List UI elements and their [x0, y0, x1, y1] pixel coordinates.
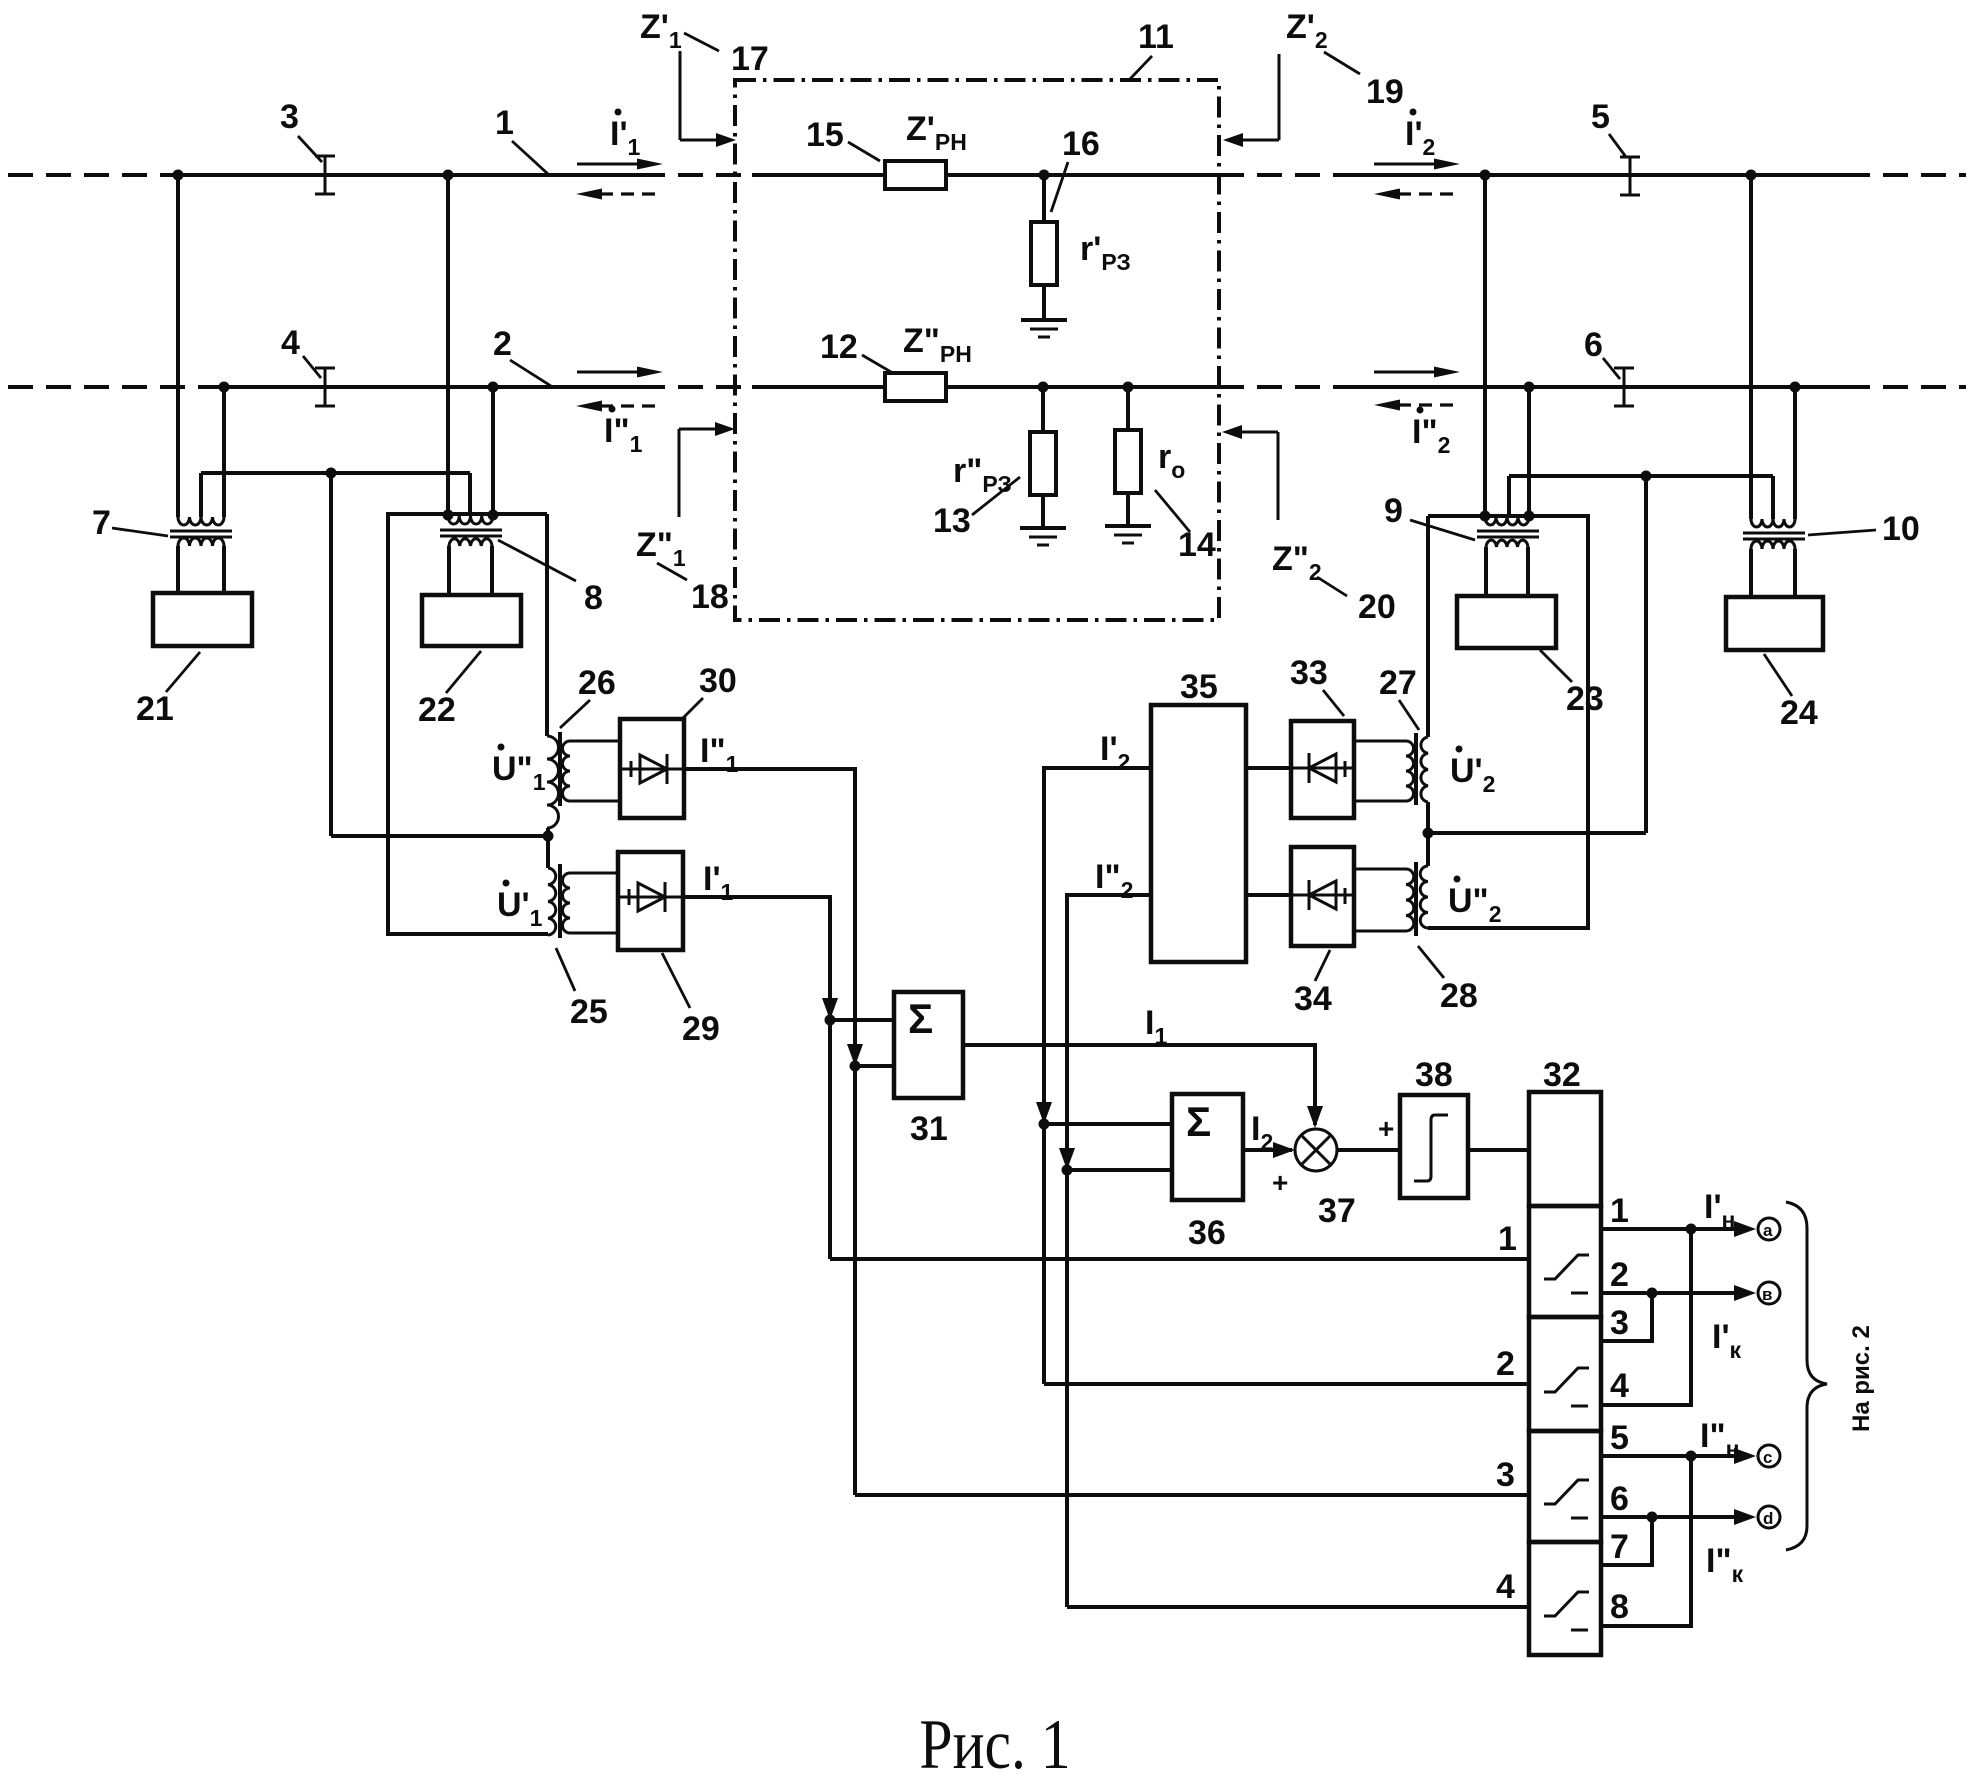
- wire bus line 2 left solid: [212, 385, 640, 389]
- node junction line1 x448: [443, 170, 454, 181]
- transformer 9 secondary coil: [1486, 540, 1528, 547]
- svg-text:13: 13: [933, 502, 971, 540]
- load box 23: [1457, 596, 1556, 648]
- svg-text:27: 27: [1379, 664, 1417, 702]
- arrow I2 into 37: [1273, 1142, 1295, 1158]
- wire channel line 3 to block 32: [855, 1493, 1529, 1497]
- transformer 7 core: [170, 531, 232, 537]
- diode inside rectifier 34: [1291, 880, 1354, 910]
- multiplier 37: [1295, 1129, 1337, 1171]
- rectifier box 33: [1291, 721, 1354, 818]
- node junction transformer 9 left terminal: [1480, 511, 1491, 522]
- svg-text:21: 21: [136, 690, 174, 728]
- svg-text:1: 1: [1610, 1192, 1629, 1230]
- label 8: [498, 540, 603, 617]
- node junction transformer 8 right terminal: [488, 510, 499, 521]
- label I"1 output: [700, 732, 739, 777]
- label 10: [1808, 510, 1920, 548]
- wire output 6 to terminal d: [1652, 1515, 1745, 1519]
- label 33: [1290, 654, 1344, 716]
- transformer 10 primary coil: [1751, 519, 1795, 527]
- svg-text:7: 7: [92, 504, 111, 542]
- wire bus line 1 left dashed: [8, 173, 176, 177]
- resistor 14 ro: [1115, 430, 1141, 493]
- summator block 31: [894, 992, 963, 1098]
- dash-dot boundary box 11: [735, 80, 1219, 620]
- wire junction x1646 down to U2 common: [1428, 476, 1646, 833]
- label 5: [1591, 98, 1626, 157]
- label 27: [1379, 664, 1419, 730]
- node junction line2 x224: [219, 382, 230, 393]
- ground under ro: [1105, 526, 1151, 543]
- node junction transformer 9 right terminal: [1524, 511, 1535, 522]
- voltage unit box U1 outline: [388, 514, 548, 934]
- label I'2 current: [1405, 109, 1435, 161]
- arrow to terminal d: [1734, 1509, 1756, 1525]
- wire tee drop to ro: [1126, 387, 1130, 430]
- label I'2 output: [1100, 730, 1130, 775]
- node junction line1 x1485: [1480, 170, 1491, 181]
- wire line2 drop to transformer 10: [1793, 387, 1797, 519]
- summator block 36: [1172, 1094, 1243, 1200]
- wire output stub 3 joins 2: [1601, 1293, 1652, 1341]
- wire I"2 output of 35: [1067, 895, 1151, 1607]
- wire 35 to rectifier 34: [1246, 893, 1291, 897]
- label I"2 output: [1095, 858, 1133, 903]
- svg-text:33: 33: [1290, 654, 1328, 692]
- wire line1 drop to transformer 8: [446, 175, 450, 516]
- svg-text:3: 3: [1610, 1304, 1629, 1342]
- wire output stub 2: [1601, 1291, 1652, 1295]
- node junction line1 x178: [173, 170, 184, 181]
- node junction I"1 branch to 31: [850, 1061, 861, 1072]
- label 13: [933, 477, 1020, 540]
- wire output stub 7 joins 6: [1601, 1517, 1652, 1565]
- label 3: [280, 98, 322, 162]
- wire bus line 1 dashed right of box: [1219, 173, 1348, 177]
- wire bus line 2 inside box left: [752, 385, 885, 389]
- label Z'PH value: [906, 110, 967, 155]
- label U"2: [1448, 876, 1501, 928]
- label U"1: [492, 744, 546, 796]
- wire bus line 1 inside box left: [752, 173, 885, 177]
- label Z'2 with pointer: [1223, 8, 1360, 147]
- wire bus line 2 left dashed: [8, 385, 212, 389]
- svg-text:35: 35: [1180, 668, 1218, 706]
- node junction line2 x1795: [1790, 382, 1801, 393]
- svg-text:12: 12: [820, 328, 858, 366]
- wire bus line 2 dashed into box: [640, 385, 752, 389]
- label 12: [820, 328, 891, 372]
- secondary loop of winding 27 to rectifier 33: [1354, 741, 1414, 801]
- label 16: [1051, 125, 1100, 212]
- arrow into summator 36 input 1: [1036, 1102, 1052, 1124]
- threshold cell B of 32: [1529, 1317, 1601, 1431]
- svg-text:4: 4: [281, 324, 300, 362]
- wire line2 drop to transformer 9: [1527, 387, 1531, 517]
- wire output 2 to terminal b: [1652, 1291, 1745, 1295]
- label 25: [556, 948, 608, 1031]
- label 6: [1584, 326, 1620, 379]
- svg-text:29: 29: [682, 1010, 720, 1048]
- wire transformer 8 secondary legs: [449, 546, 492, 595]
- node junction line2 x493: [488, 382, 499, 393]
- threshold cell A of 32: [1529, 1206, 1601, 1317]
- svg-text:20: 20: [1358, 588, 1396, 626]
- caption Ris 1: [919, 1706, 1070, 1780]
- transformer 10 secondary coil: [1751, 541, 1795, 549]
- wire transformer 7 secondary legs: [178, 546, 224, 593]
- core bar of winding 27: [1414, 733, 1418, 805]
- wire 31 input 1: [830, 1018, 894, 1022]
- svg-text:На рис. 2: На рис. 2: [1848, 1325, 1875, 1432]
- rectifier box 30: [620, 719, 684, 818]
- svg-text:3: 3: [1496, 1456, 1515, 1494]
- node junction line2 x1529: [1524, 382, 1535, 393]
- label Z"1 with pointer: [636, 422, 735, 580]
- label 26: [560, 664, 616, 728]
- wire transformer 10 secondary legs: [1751, 549, 1795, 597]
- insulator 5: [1620, 157, 1640, 195]
- svg-text:38: 38: [1415, 1056, 1453, 1094]
- svg-text:15: 15: [806, 116, 844, 154]
- wire I'1 output of rectifier 29: [683, 897, 830, 1259]
- core bar of winding 28: [1414, 862, 1418, 936]
- wire ro to ground: [1126, 493, 1130, 526]
- arrow current direction right on line 2 left: [577, 367, 663, 378]
- wire channel line 4 to block 32: [1067, 1605, 1529, 1609]
- svg-text:32: 32: [1543, 1056, 1581, 1094]
- wire line1 drop to transformer 10: [1749, 175, 1753, 519]
- wire line2 drop to transformer 7: [222, 387, 226, 517]
- transformer 9 core: [1477, 531, 1539, 537]
- label I'n output: [1704, 1188, 1735, 1233]
- diode inside rectifier 33: [1291, 753, 1354, 783]
- svg-text:2: 2: [1496, 1345, 1515, 1383]
- wire channel line 2 to block 32: [1044, 1382, 1529, 1386]
- svg-text:+: +: [1378, 1113, 1394, 1144]
- wire 36 input 1: [1044, 1122, 1172, 1126]
- wire line1 drop to transformer 9: [1483, 175, 1487, 517]
- label 30: [681, 662, 737, 720]
- svg-text:2: 2: [493, 325, 512, 363]
- label 9: [1384, 492, 1475, 540]
- svg-text:31: 31: [910, 1110, 948, 1148]
- svg-text:25: 25: [570, 993, 608, 1031]
- svg-text:6: 6: [1584, 326, 1603, 364]
- transformer 8 secondary coil: [449, 539, 492, 546]
- arrow current direction left dashed on line 2 right: [1374, 400, 1460, 411]
- rectifier box 34: [1291, 847, 1354, 946]
- label 11: [1130, 18, 1174, 79]
- current block 35: [1151, 705, 1246, 962]
- rectifier box 29: [618, 852, 683, 950]
- insulator 6: [1614, 368, 1634, 406]
- label I'1 current: [610, 109, 641, 161]
- winding U'2 on box edge: [1421, 737, 1428, 802]
- label 21: [136, 652, 200, 728]
- secondary loop of winding 25 to rectifier 29: [563, 873, 618, 933]
- label 24: [1764, 654, 1818, 732]
- arrow to terminal c: [1734, 1448, 1756, 1464]
- svg-text:+: +: [1272, 1167, 1288, 1198]
- brace to fig 2: [1786, 1202, 1827, 1550]
- wire 31 input 2: [855, 1064, 894, 1068]
- label I"2 current: [1412, 407, 1450, 459]
- arrow current direction left dashed on line 1 left: [576, 189, 662, 200]
- arrow I1 into multiplier 37: [1307, 1106, 1323, 1128]
- wire output stub 8 joins 5: [1601, 1456, 1691, 1626]
- diode inside rectifier 30: [620, 754, 684, 784]
- svg-text:в: в: [1762, 1285, 1772, 1304]
- label I'1 output: [703, 860, 734, 905]
- arrow into summator 31 input 2: [847, 1044, 863, 1066]
- transformer 8 primary coil: [448, 516, 493, 524]
- threshold cell C of 32: [1529, 1431, 1601, 1542]
- terminal circle a: [1758, 1218, 1780, 1240]
- ground under r'P3: [1021, 320, 1067, 337]
- transformer 7 primary coil: [178, 517, 224, 525]
- label I1: [1145, 1004, 1167, 1049]
- node junction line1 x1751: [1746, 170, 1757, 181]
- svg-text:4: 4: [1496, 1568, 1515, 1606]
- transformer 9 primary coil: [1485, 517, 1529, 525]
- resistor 16 r'P3: [1031, 222, 1057, 285]
- core bar of winding 26: [558, 732, 562, 806]
- arrow current direction left dashed on line 1 right: [1374, 189, 1460, 200]
- node junction output 2: [1647, 1288, 1658, 1299]
- label 14: [1155, 490, 1216, 564]
- node junction I'2 branch to 36: [1039, 1119, 1050, 1130]
- svg-text:c: c: [1763, 1448, 1772, 1467]
- wire junction x331 down to U1 common: [331, 473, 548, 836]
- wire bus line 2 right solid: [1348, 385, 1845, 389]
- wire tee drop to r"P3: [1041, 387, 1045, 432]
- node junction line1 x1044: [1039, 170, 1050, 181]
- svg-text:34: 34: [1294, 980, 1332, 1018]
- label I2: [1251, 1110, 1273, 1155]
- wire I2 from 36 to 37: [1243, 1148, 1292, 1152]
- node junction center-tap x331: [326, 468, 337, 479]
- wire output 5 to terminal c: [1691, 1454, 1745, 1458]
- svg-text:14: 14: [1178, 526, 1216, 564]
- wire 35 to rectifier 33: [1246, 766, 1291, 770]
- resistor 12 Z"PH: [885, 373, 946, 401]
- wire bus line 1 dashed into box: [640, 173, 752, 177]
- svg-text:17: 17: [731, 40, 769, 78]
- label I"n output: [1700, 1417, 1739, 1462]
- diode inside rectifier 29: [618, 882, 683, 912]
- secondary loop of winding 28 to rectifier 34: [1354, 869, 1414, 931]
- wire bus line 2 inside box right: [946, 385, 1219, 389]
- arrow into summator 31 input 1: [822, 998, 838, 1020]
- label 22: [418, 651, 481, 729]
- wire output 1 to terminal a: [1691, 1227, 1745, 1231]
- svg-text:1: 1: [495, 104, 514, 142]
- resistor 15 Z'PH: [885, 161, 946, 189]
- wire r"P3 to ground: [1041, 495, 1045, 528]
- ground under r"P3: [1020, 528, 1066, 545]
- wire bus line 2 dashed right of box: [1219, 385, 1348, 389]
- svg-text:a: a: [1763, 1221, 1773, 1240]
- label 29: [662, 953, 720, 1048]
- svg-text:4: 4: [1610, 1367, 1629, 1405]
- label 4: [281, 324, 321, 378]
- winding U"2 on box edge: [1420, 866, 1428, 928]
- wire output stub 4 joins 1: [1601, 1229, 1691, 1405]
- svg-text:7: 7: [1610, 1528, 1629, 1566]
- wire I1 from 31 to multiplier 37: [963, 1045, 1315, 1125]
- reacting unit block 32 top cell: [1529, 1092, 1601, 1206]
- label 7: [92, 504, 168, 542]
- arrow to terminal a: [1734, 1221, 1756, 1237]
- svg-text:22: 22: [418, 691, 456, 729]
- svg-text:9: 9: [1384, 492, 1403, 530]
- svg-text:10: 10: [1882, 510, 1920, 548]
- svg-text:3: 3: [280, 98, 299, 136]
- wire center-tap bus between transformers 9 and 10: [1509, 476, 1773, 519]
- label Z"PH value: [903, 322, 972, 367]
- svg-text:1: 1: [1498, 1220, 1517, 1258]
- node junction I"2 branch to 36: [1062, 1165, 1073, 1176]
- label 1: [495, 104, 548, 174]
- svg-text:8: 8: [1610, 1588, 1629, 1626]
- label 34: [1294, 950, 1332, 1018]
- svg-text:19: 19: [1366, 73, 1404, 111]
- wire I'2 output of 35: [1044, 768, 1151, 1384]
- label 23: [1540, 650, 1604, 718]
- arrow current direction right on line 2 right: [1374, 367, 1460, 378]
- node junction transformer 8 left terminal: [443, 510, 454, 521]
- svg-text:6: 6: [1610, 1480, 1629, 1518]
- svg-text:37: 37: [1318, 1192, 1356, 1230]
- svg-text:24: 24: [1780, 694, 1818, 732]
- wire channel line 1 to block 32: [830, 1257, 1529, 1261]
- label U'1: [497, 880, 543, 932]
- threshold cell D of 32: [1529, 1542, 1601, 1655]
- relay block 38: [1400, 1095, 1468, 1198]
- svg-text:Рис. 1: Рис. 1: [919, 1706, 1070, 1780]
- resistor 13 r"P3: [1030, 432, 1056, 495]
- wire center-tap bus between transformers 7 and 8: [201, 473, 470, 517]
- load box 24: [1726, 597, 1823, 650]
- svg-text:5: 5: [1610, 1419, 1629, 1457]
- arrow current direction right on line 1 right: [1374, 159, 1460, 170]
- label 28: [1418, 946, 1478, 1015]
- insulator 3: [315, 156, 335, 194]
- label 15: [806, 116, 880, 161]
- wire tee drop to r'P3: [1042, 175, 1046, 222]
- svg-text:23: 23: [1566, 680, 1604, 718]
- transformer 8 core: [440, 530, 502, 536]
- label 2: [493, 325, 551, 386]
- node junction line2 x1128: [1123, 382, 1134, 393]
- label Z'1 with pointer: [640, 8, 736, 147]
- svg-text:16: 16: [1062, 125, 1100, 163]
- wire bus line 1 left solid: [176, 173, 640, 177]
- label r"P3 value: [953, 452, 1012, 497]
- arrow current direction right on line 1 left: [577, 159, 663, 170]
- arrow to terminal b: [1734, 1285, 1756, 1301]
- node junction center-tap x1646: [1641, 471, 1652, 482]
- voltage unit box U2 outline: [1428, 516, 1588, 928]
- wire r'P3 to ground: [1042, 285, 1046, 320]
- node junction I'1 branch to 31: [825, 1015, 836, 1026]
- node junction U2 common tap: [1423, 828, 1434, 839]
- svg-text:36: 36: [1188, 1214, 1226, 1252]
- svg-text:26: 26: [578, 664, 616, 702]
- node junction output 1: [1686, 1224, 1697, 1235]
- terminal circle b: [1758, 1282, 1780, 1304]
- svg-text:8: 8: [584, 579, 603, 617]
- transformer 10 core: [1743, 533, 1805, 539]
- svg-text:11: 11: [1138, 18, 1174, 56]
- label r'P3 value: [1080, 230, 1131, 275]
- svg-text:30: 30: [699, 662, 737, 700]
- wire bus line 2 right dashed: [1845, 385, 1966, 389]
- svg-text:2: 2: [1610, 1256, 1629, 1294]
- svg-text:d: d: [1763, 1509, 1773, 1528]
- svg-text:28: 28: [1440, 977, 1478, 1015]
- node junction U1 common tap: [543, 831, 554, 842]
- svg-text:5: 5: [1591, 98, 1610, 136]
- label I'k output: [1712, 1318, 1742, 1363]
- wire output stub 1: [1601, 1227, 1691, 1231]
- load box 22: [422, 595, 521, 646]
- wire 38 to block 32: [1468, 1148, 1529, 1152]
- wire 37 to 38: [1337, 1148, 1400, 1152]
- svg-text:Σ: Σ: [908, 995, 933, 1042]
- terminal circle d: [1758, 1506, 1780, 1528]
- label I"1 current: [604, 406, 643, 458]
- wire line1 drop to transformer 7: [176, 175, 180, 517]
- wire transformer 9 secondary legs: [1486, 547, 1528, 596]
- label ro value: [1158, 438, 1185, 483]
- label I"k output: [1706, 1542, 1744, 1587]
- arrow current direction left dashed on line 2 left: [576, 401, 662, 412]
- svg-text:18: 18: [691, 578, 729, 616]
- wire bus line 1 inside box right: [946, 173, 1219, 177]
- node junction output 5: [1686, 1451, 1697, 1462]
- insulator 4: [315, 368, 335, 406]
- wire bus line 1 right solid: [1348, 173, 1845, 177]
- wire 36 input 2: [1067, 1168, 1172, 1172]
- wire line2 drop to transformer 8: [491, 387, 495, 516]
- node junction line2 x1043: [1038, 382, 1049, 393]
- terminal circle c: [1758, 1445, 1780, 1467]
- secondary loop of winding 26 to rectifier 30: [563, 741, 620, 801]
- svg-text:Σ: Σ: [1186, 1098, 1211, 1145]
- label U'2: [1450, 746, 1495, 798]
- winding U"1 on box edge: [547, 736, 559, 828]
- core bar of winding 25: [558, 864, 562, 938]
- wire I"1 output of rectifier 30: [684, 769, 855, 1495]
- transformer 7 secondary coil: [178, 538, 224, 546]
- wire output stub 6: [1601, 1515, 1652, 1519]
- wire bus line 1 right dashed: [1845, 173, 1966, 177]
- node junction output 6: [1647, 1512, 1658, 1523]
- label Z"2 with pointer: [1222, 425, 1347, 596]
- wire output stub 5: [1601, 1454, 1691, 1458]
- arrow into summator 36 input 2: [1059, 1148, 1075, 1170]
- winding U'1 on box edge: [548, 868, 556, 935]
- load box 21: [153, 593, 252, 646]
